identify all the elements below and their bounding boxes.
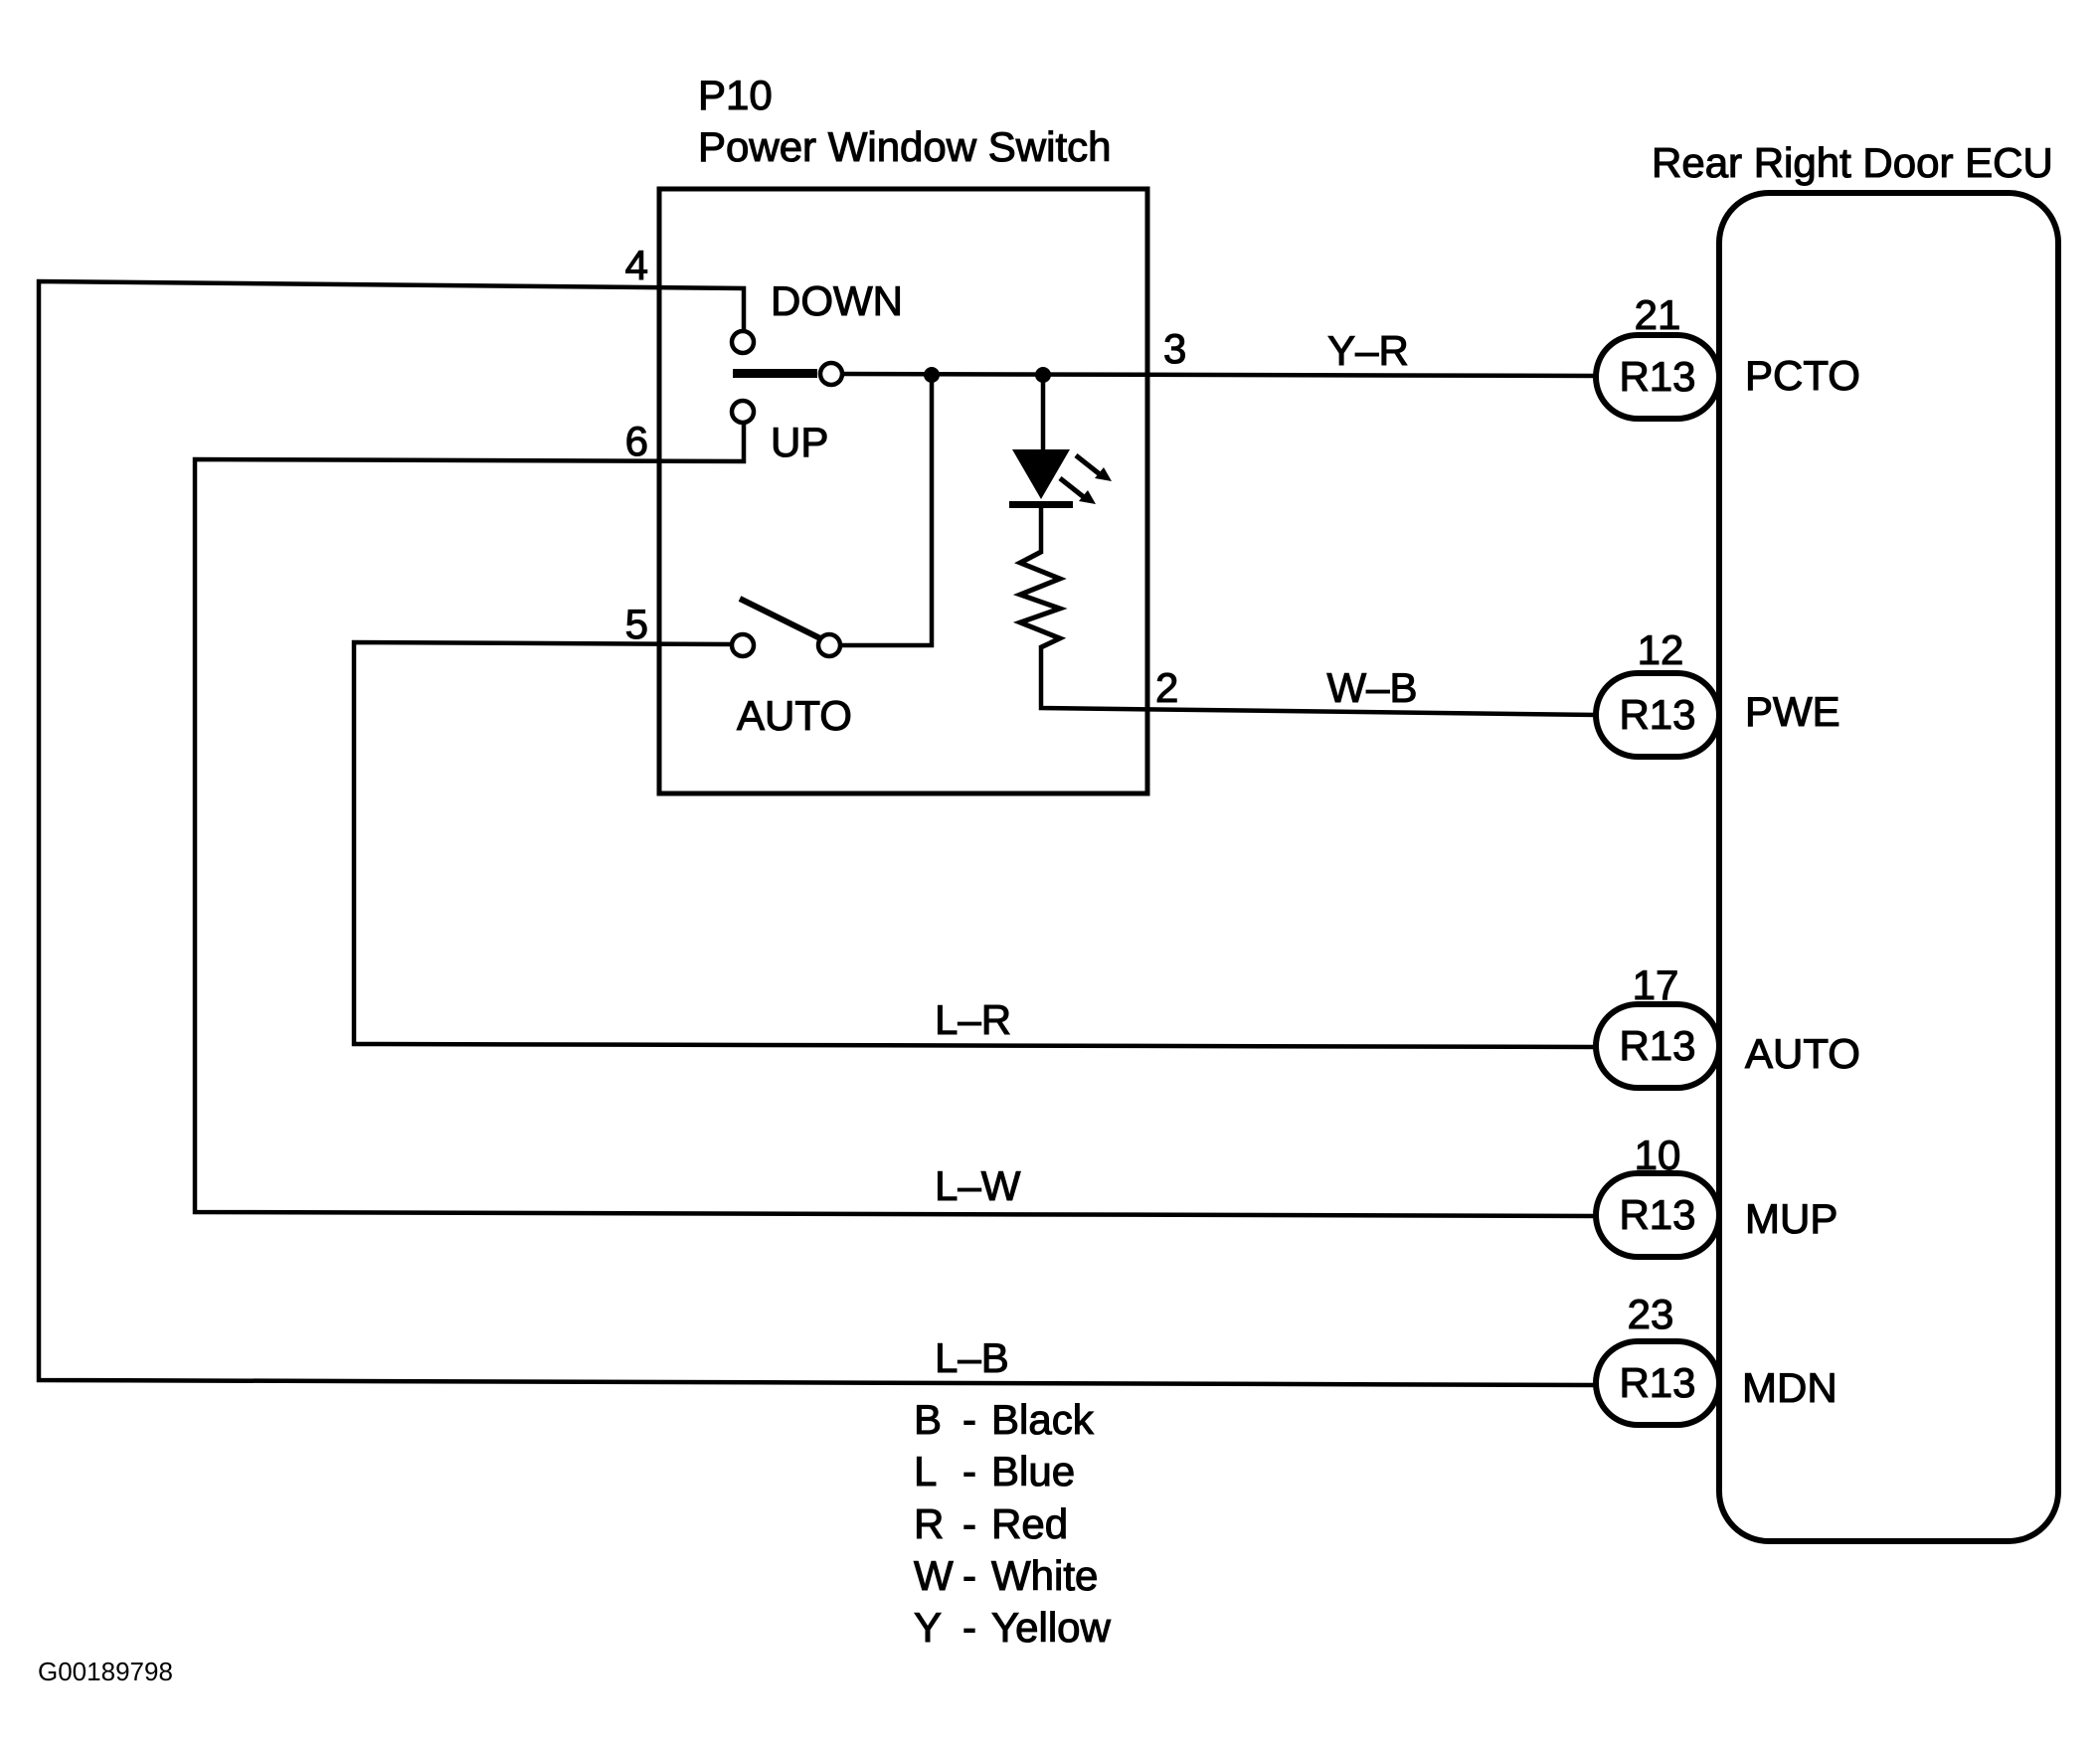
wire LED cathode to resistor [1039, 507, 1044, 554]
svg-text:R13: R13 [1619, 1359, 1695, 1406]
wire pin5 to AUTO (L-R) [354, 642, 1598, 1047]
svg-text:DOWN: DOWN [771, 277, 903, 324]
connector R13 pin 10 MUP [1596, 1173, 1719, 1257]
svg-text:2: 2 [1155, 664, 1178, 711]
svg-text:23: 23 [1628, 1291, 1674, 1337]
svg-text:Power Window Switch: Power Window Switch [698, 123, 1111, 170]
switch common bar [733, 369, 817, 378]
AUTO switch left contact [732, 634, 754, 656]
svg-text:R-Red: R-Red [914, 1500, 1068, 1547]
svg-text:5: 5 [625, 601, 648, 647]
wire LED anode [1041, 375, 1046, 451]
wire pin2 to PWE (W-B) [1041, 645, 1597, 715]
connector R13 pin 21 PCTO [1596, 335, 1719, 419]
svg-text:R13: R13 [1619, 691, 1695, 738]
contact DOWN fixed [732, 331, 754, 353]
AUTO switch right contact [818, 634, 840, 656]
svg-text:3: 3 [1163, 325, 1186, 372]
svg-text:MUP: MUP [1745, 1195, 1837, 1242]
AUTO switch lever [740, 599, 824, 640]
switch box P10 [659, 189, 1147, 793]
connector R13 pin 23 MDN [1596, 1341, 1719, 1425]
contact common movable [820, 363, 842, 385]
svg-text:R13: R13 [1619, 1022, 1695, 1069]
wire AUTO switch branch [840, 375, 932, 645]
svg-text:Rear Right Door ECU: Rear Right Door ECU [1652, 139, 2053, 186]
svg-text:B-Black: B-Black [914, 1396, 1095, 1443]
svg-text:R13: R13 [1619, 1191, 1695, 1238]
svg-text:Y–R: Y–R [1327, 327, 1409, 374]
resistor [1020, 552, 1060, 647]
junction node A [924, 367, 940, 383]
svg-text:L–W: L–W [935, 1162, 1021, 1209]
svg-text:AUTO: AUTO [1745, 1030, 1860, 1077]
wire pin6 to MUP (L-W) [195, 422, 1598, 1216]
svg-text:UP: UP [771, 419, 828, 465]
svg-text:AUTO: AUTO [737, 692, 852, 739]
contact UP fixed [732, 401, 754, 423]
svg-text:G00189798: G00189798 [38, 1657, 173, 1686]
svg-text:R13: R13 [1619, 353, 1695, 400]
svg-text:W-White: W-White [914, 1552, 1098, 1599]
svg-text:L–R: L–R [935, 996, 1011, 1043]
svg-text:4: 4 [625, 242, 648, 288]
svg-text:PCTO: PCTO [1745, 352, 1860, 399]
wire pin3 to PCTO (Y-R) [841, 374, 1598, 376]
connector R13 pin 12 PWE [1596, 673, 1719, 757]
svg-text:PWE: PWE [1745, 688, 1840, 735]
svg-text:12: 12 [1638, 626, 1684, 673]
svg-text:10: 10 [1635, 1132, 1681, 1178]
junction node B [1035, 367, 1051, 383]
svg-text:W–B: W–B [1326, 664, 1417, 711]
LED indicator lamp [1009, 449, 1112, 508]
svg-text:P10: P10 [698, 72, 773, 118]
svg-text:6: 6 [625, 418, 648, 464]
wire pin4 to MDN (L-B) [39, 281, 1597, 1385]
svg-text:MDN: MDN [1742, 1364, 1837, 1411]
connector R13 pin 17 AUTO [1596, 1004, 1719, 1088]
svg-text:L–B: L–B [935, 1334, 1009, 1381]
svg-text:17: 17 [1633, 962, 1679, 1008]
svg-text:21: 21 [1635, 291, 1681, 338]
ECU box [1719, 193, 2058, 1541]
